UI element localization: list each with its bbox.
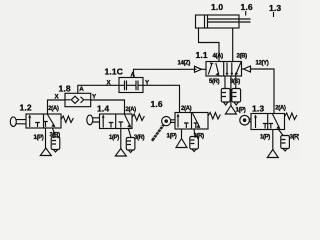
port line 1(P) of 1.2	[45, 128, 47, 148]
valve 1.6 internals	[177, 115, 179, 128]
svg-text:1.1C: 1.1C	[105, 67, 124, 77]
label 1.1	[196, 50, 208, 60]
svg-text:1(P): 1(P)	[236, 108, 246, 114]
tick 1.3	[273, 12, 275, 17]
port jog 3(R) of 1.3	[279, 130, 283, 136]
valve 1.3 3/2 roller body	[251, 114, 285, 130]
label Y of 1.1C	[145, 80, 150, 87]
label 1.8	[59, 84, 71, 94]
label 1.3	[252, 104, 264, 114]
label 3(R) of 1.2	[50, 133, 61, 139]
label 1(P) of 1.6	[167, 134, 177, 140]
label Y of 1.8	[92, 94, 97, 101]
port line 1(P) supply	[230, 76, 232, 106]
silencer on 3(R) of 1.2	[51, 137, 60, 150]
label X of 1.1C	[107, 80, 112, 87]
svg-text:1(P): 1(P)	[260, 135, 270, 141]
shuttle valve 1.8 body	[65, 93, 91, 106]
wire cylinder left port to valve 1.1 port 4	[199, 28, 220, 62]
label port 4(A)	[213, 54, 224, 60]
label port 5(R)	[209, 79, 220, 85]
valve 1.6 3/2 roller body	[175, 113, 208, 130]
valve 1.2 internals	[29, 116, 31, 127]
svg-text:4(A): 4(A)	[213, 54, 224, 60]
svg-text:1.2: 1.2	[20, 103, 32, 113]
svg-text:A: A	[79, 86, 84, 93]
push button 1.2	[10, 117, 16, 127]
pilot triangle 14(Z)	[195, 66, 202, 72]
port line 1(P) of 1.4	[120, 129, 122, 149]
label 3(R) of 1.4	[134, 135, 145, 141]
label 1(P) of valve 1.1	[236, 108, 246, 114]
svg-text:1.1: 1.1	[196, 50, 208, 60]
port jog 3(R) of 1.4	[128, 129, 131, 138]
port line 5(R)	[224, 76, 226, 89]
supply triangle 1(P) of 1.3	[267, 150, 278, 158]
silencer on 3(R) of 1.4	[126, 138, 135, 151]
wire 1.1C Y to valve 1.6 port 2	[143, 85, 180, 112]
valve U1.1 5/2 body	[206, 62, 242, 77]
label 12(Y)	[256, 61, 269, 67]
label 2(A) of 1.6	[181, 106, 192, 112]
supply triangle 1(P) of 1.6	[176, 139, 187, 148]
port line 3(R) of 1.6	[194, 129, 195, 137]
label 1(P) of 1.2	[34, 135, 44, 141]
roller 1.3	[240, 115, 250, 125]
wire shuttle 1.8 A to two-pressure 1.1C X	[78, 85, 119, 93]
two-pressure 1.1C internals	[119, 84, 143, 86]
svg-text:3(R): 3(R)	[290, 135, 300, 141]
silencer on 3(R) of 1.6	[190, 137, 199, 150]
label 1.4	[97, 104, 109, 114]
label 2(A) of 1.4	[126, 107, 137, 113]
svg-text:5(R): 5(R)	[209, 79, 220, 85]
port line 1(P) of 1.3	[272, 130, 274, 150]
valve 1.1 internals right square	[227, 63, 232, 75]
svg-text:1(P): 1(P)	[34, 135, 44, 141]
silencer on 5(R)	[221, 89, 230, 103]
label 2(A) of 1.3	[275, 106, 286, 112]
cylinder 1.0 piston rod	[208, 19, 251, 22]
valve 1.2 3/2 push-button body	[26, 114, 61, 128]
wire 1.4 port 2 to shuttle 1.8 Y	[91, 100, 125, 114]
spring 1.3	[285, 113, 297, 120]
supply triangle 1(P) of 1.4	[115, 149, 126, 157]
label 1.3 position marker	[269, 3, 281, 13]
label port 2(B)	[237, 54, 248, 60]
valve 1.3 internals	[255, 116, 257, 128]
svg-text:3(S): 3(S)	[230, 79, 240, 85]
port jog 3(R) of 1.2	[53, 128, 56, 137]
label A of 1.1C	[131, 72, 136, 79]
svg-text:1.3: 1.3	[269, 3, 281, 13]
svg-text:1(P): 1(P)	[167, 134, 177, 140]
shuttle 1.8 internals	[65, 99, 91, 101]
spring 1.6	[208, 113, 220, 120]
supply triangle 1(P) of 1.2	[40, 148, 51, 156]
label X of 1.8	[55, 94, 60, 101]
svg-text:2(A): 2(A)	[48, 106, 59, 112]
cylinder 1.0 piston	[205, 15, 208, 28]
label 1.6 position marker	[241, 2, 253, 12]
label 1.6	[151, 99, 163, 109]
roller 1.6	[162, 117, 171, 126]
label 3(R) of 1.6	[194, 134, 205, 140]
silencer on 3(R) of 1.3	[281, 136, 290, 149]
valve 1.1 internals left square	[208, 64, 212, 75]
svg-text:2(B): 2(B)	[237, 54, 248, 60]
label A of 1.8	[79, 86, 84, 93]
svg-text:2(A): 2(A)	[275, 106, 286, 112]
push button 1.4	[87, 115, 93, 125]
label 1.1C	[105, 67, 124, 77]
spring 1.2	[61, 116, 73, 123]
label 1.0	[211, 2, 223, 12]
svg-text:1.4: 1.4	[97, 104, 109, 114]
svg-text:14(Z): 14(Z)	[178, 61, 191, 67]
label 3(R) of 1.3	[290, 135, 301, 141]
svg-text:1.6: 1.6	[151, 99, 163, 109]
spring 1.4	[132, 114, 144, 121]
svg-text:12(Y): 12(Y)	[256, 61, 269, 67]
cylinder 1.0 body	[196, 15, 240, 28]
port line 3(S)	[235, 76, 237, 89]
supply triangle 1(P) of valve 1.1	[225, 106, 236, 115]
svg-text:2(A): 2(A)	[126, 107, 137, 113]
pilot triangle 12(Y)	[244, 66, 251, 72]
port line 1(P) of 1.6	[181, 129, 183, 139]
wire 1.1C A to pilot 14(Z)	[134, 69, 197, 77]
svg-text:1.3: 1.3	[252, 104, 264, 114]
valve 1.4 3/2 push-button body	[100, 114, 133, 129]
label 1(P) of 1.3	[260, 135, 270, 141]
valve 1.4 internals	[102, 116, 104, 128]
label 1.2	[20, 103, 32, 113]
label 1(P) of 1.4	[109, 135, 119, 141]
svg-text:2(A): 2(A)	[181, 106, 192, 112]
svg-text:1.6: 1.6	[241, 2, 253, 12]
roller lever 1.6 (hatched)	[152, 125, 163, 141]
label 14(Z)	[178, 61, 191, 67]
wire 12(Y) pilot to valve 1.3 port 2(A)	[251, 69, 275, 114]
svg-text:1.0: 1.0	[211, 2, 223, 12]
svg-text:1(P): 1(P)	[109, 135, 119, 141]
tick 1.6	[245, 11, 247, 16]
svg-text:1.8: 1.8	[59, 84, 71, 94]
silencer on 3(S)	[232, 89, 241, 103]
two-pressure valve 1.1C body	[119, 78, 143, 93]
label port 3(S)	[230, 79, 240, 85]
svg-text:3(R): 3(R)	[134, 135, 145, 141]
wire 1.2 port 2 to shuttle 1.8 X	[48, 100, 66, 114]
label 2(A) of 1.2	[48, 106, 59, 112]
wire cylinder right port to valve 1.1 port 2	[232, 28, 234, 62]
